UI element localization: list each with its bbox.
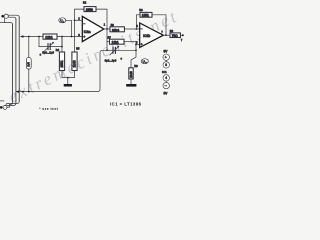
wire ground bus bottom <box>23 50 108 91</box>
node compensation join <box>106 49 108 51</box>
ground (left) <box>64 78 72 87</box>
node ground join <box>67 77 69 79</box>
resistor R6 feedback 1551 <box>140 12 152 17</box>
resistor R9 75 ohm output <box>170 33 180 38</box>
wire cable mid top curve <box>8 17 16 19</box>
wire cable mid bottom curve <box>7 103 16 106</box>
wire pin5 <box>136 44 140 46</box>
node U1 tap <box>71 36 73 38</box>
wire plus to pin8 <box>165 60 167 61</box>
wire pin2 <box>75 19 83 21</box>
node output A <box>106 28 108 30</box>
wire cable inner top curve <box>5 18 13 24</box>
node bus pill <box>28 91 30 93</box>
wire right network vertical <box>131 42 136 68</box>
wire input tap arrow (top) <box>23 36 39 38</box>
svg-text:8: 8 <box>165 63 167 67</box>
wire output terminal <box>180 34 182 36</box>
svg-text:2551: 2551 <box>60 60 64 67</box>
resistor R7 12k1 (middle) <box>107 39 136 45</box>
resistor R2 feedback 2550 <box>84 7 96 13</box>
resistor R8 (vertical to ground) <box>129 68 133 79</box>
svg-text:IC1: IC1 <box>162 70 167 74</box>
node output terminal <box>182 34 184 36</box>
node trimmer right <box>61 36 63 38</box>
node feedback tap pin6 <box>136 28 138 30</box>
wire pin4 to minus <box>165 81 167 82</box>
label Uo <box>141 59 148 64</box>
svg-text:IC1b: IC1b <box>143 34 150 38</box>
wire node A drop <box>106 29 108 50</box>
wire R6 left lead <box>136 15 140 29</box>
wire R1 to node <box>57 36 82 38</box>
wire connector sleeve stub top <box>0 22 5 24</box>
node pin2/feedback <box>74 19 76 21</box>
wire cable inner bottom curve <box>7 102 13 107</box>
wire cable core bottom curve <box>6 101 19 105</box>
wire trimmer C2 left lead <box>107 49 113 51</box>
wire R2 left lead <box>75 9 85 20</box>
watermark <box>5 5 182 106</box>
wire pill to bottom bus <box>28 69 30 91</box>
wire resistor bottoms join <box>62 71 75 78</box>
wire trimmer C1 right drop <box>50 37 62 47</box>
svg-text:6p0...1p6: 6p0...1p6 <box>42 51 54 55</box>
op-amp IC1a <box>82 16 104 41</box>
trimmer capacitor C2 <box>110 46 120 55</box>
node pin5 tap <box>135 44 137 46</box>
wire connector sleeve stub bottom <box>0 100 4 102</box>
wire R3 to pin6 <box>124 28 139 30</box>
svg-text:* see text: * see text <box>39 107 58 111</box>
node C1 right join <box>61 46 63 48</box>
svg-text:2k49: 2k49 <box>129 71 133 78</box>
node trimmer left <box>38 36 40 38</box>
sensor element BT1 (pill) <box>26 57 31 69</box>
svg-text:IC1a: IC1a <box>84 30 91 34</box>
svg-text:63k4: 63k4 <box>112 28 119 32</box>
svg-text:12k1: 12k1 <box>112 41 119 45</box>
wire pill drop <box>28 37 30 58</box>
svg-text:1k43: 1k43 <box>73 60 77 67</box>
label U1 <box>59 18 66 24</box>
svg-text:−: − <box>141 27 143 31</box>
node C2 right join <box>135 49 137 51</box>
wire IC1b output <box>163 34 170 36</box>
resistor R1 12k1 (series input) <box>43 34 57 40</box>
connector J2 (bottom left) <box>0 105 7 109</box>
supply plus circle <box>163 54 169 60</box>
svg-text:12k1: 12k1 <box>45 36 53 40</box>
svg-text:1551: 1551 <box>142 14 149 18</box>
wire R6 right lead to output <box>152 15 166 35</box>
wire trimmer C2 right lead <box>115 49 136 51</box>
svg-text:4: 4 <box>165 76 167 80</box>
svg-text:2550: 2550 <box>86 8 93 12</box>
pin 4 circle <box>163 75 169 81</box>
trimmer capacitor C1 <box>44 42 54 51</box>
pin 8 circle <box>163 62 169 68</box>
ground (middle) <box>126 79 136 87</box>
svg-text:IC1 = LT1396: IC1 = LT1396 <box>110 102 142 107</box>
wire cable line 3 <box>18 18 20 101</box>
svg-text:1V5: 1V5 <box>27 62 31 67</box>
svg-text:+: + <box>141 43 143 47</box>
resistor R5 (right vertical) <box>72 20 77 70</box>
resistor R3 63k4 <box>110 27 124 33</box>
node bus tap2 <box>22 91 24 93</box>
svg-text:−: − <box>83 22 85 26</box>
wire cable line 2 <box>15 19 17 102</box>
op-amp IC1b <box>140 23 164 48</box>
svg-text:75Ω: 75Ω <box>172 34 179 38</box>
svg-text:+: + <box>83 35 85 39</box>
wire cable line 1 <box>12 25 14 102</box>
wire main input line <box>39 36 43 38</box>
resistor R4 (left vertical) <box>59 37 64 71</box>
wire trimmer C1 left drop <box>39 37 48 47</box>
connector J1 (probe tip, top left) <box>1 14 8 18</box>
node output B <box>165 34 167 36</box>
wire IC1a output <box>104 28 110 30</box>
supply minus circle <box>163 82 169 88</box>
wire U1 to input node <box>66 20 72 36</box>
svg-text:6p8...1p6: 6p8...1p6 <box>105 58 117 62</box>
wire R2 right lead to output <box>96 9 107 29</box>
supply rail chain <box>162 49 169 95</box>
node input/pill tap <box>28 36 30 38</box>
wire cable core top curve <box>8 15 19 18</box>
